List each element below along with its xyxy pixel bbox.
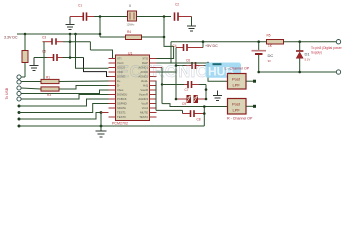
IC U1 PCM2702 body: [112, 52, 150, 126]
ground (bottom center): [96, 131, 107, 137]
resistor R4: [126, 30, 142, 40]
wire rail x75.5 down to chip pin3: [76, 34, 109, 68]
node rail x24: [24, 33, 27, 36]
node C3 right x70 y42: [69, 40, 72, 43]
svg-text:PCBCK: PCBCK: [117, 97, 127, 101]
wire box2 output: [246, 105, 254, 107]
wire pin R3 down right side: [161, 68, 163, 104]
capacitor C7: [162, 81, 206, 99]
svg-text:C2: C2: [175, 3, 179, 7]
svg-text:TEST0: TEST0: [117, 115, 126, 119]
wire C5 row to chip pin4: [84, 58, 109, 77]
blue watermark box HUB: [118, 63, 241, 82]
node C9 left: [175, 98, 178, 101]
terminal power -: [336, 70, 340, 74]
svg-text:SDATA: SDATA: [117, 106, 126, 110]
svg-text:ECTRONICS: ECTRONICS: [118, 63, 220, 81]
node box2 wire junction: [203, 105, 206, 108]
pin stubs left: [109, 59, 116, 118]
svg-text:D-: D-: [117, 84, 120, 88]
svg-text:LPF: LPF: [233, 108, 241, 113]
svg-text:XTI: XTI: [117, 57, 122, 61]
svg-text:+5V DC: +5V DC: [205, 44, 218, 48]
svg-text:SSPND: SSPND: [117, 102, 127, 106]
terminal power +: [336, 40, 340, 44]
node bottom rail battery: [257, 71, 260, 74]
svg-text:R4: R4: [127, 30, 131, 34]
wire pin R2 to box1 input: [157, 63, 228, 81]
node x44 y82: [43, 80, 46, 83]
wire dotrow4 to ground junction: [19, 125, 204, 127]
svg-text:C6: C6: [186, 59, 190, 63]
node pin12 red: [100, 111, 103, 114]
svg-text:VcomR: VcomR: [139, 93, 148, 97]
wire vertical x70 rail to C5: [69, 34, 71, 58]
svg-text:VoutR: VoutR: [140, 88, 148, 92]
svg-text:LPF: LPF: [233, 83, 241, 88]
capacitor C6: [176, 59, 208, 70]
svg-text:AGND3: AGND3: [138, 97, 148, 101]
svg-text:C7: C7: [185, 88, 189, 92]
wire junction down to ground: [100, 113, 102, 132]
terminal (USB pin 1): [17, 75, 21, 79]
svg-text:R - Channel OP: R - Channel OP: [227, 117, 253, 121]
wire C5 to chip pin1: [89, 42, 91, 50]
wire +5V rail: [171, 41, 337, 43]
svg-text:C9: C9: [182, 102, 186, 106]
red stub pin12 long: [101, 112, 109, 114]
wire terminal5 staircase to pin9: [21, 95, 108, 100]
node C5 right x70 y57: [69, 56, 72, 59]
zener diode D1: [296, 42, 310, 72]
svg-text:3.3V DC: 3.3V DC: [4, 36, 18, 40]
node rail battery: [257, 40, 260, 43]
terminal (USB pin 3): [17, 86, 21, 90]
svg-text:Post: Post: [232, 102, 241, 107]
ground (after C2): [187, 26, 196, 31]
svg-text:DGNDU: DGNDU: [117, 93, 127, 97]
svg-text:R5: R5: [267, 34, 271, 38]
wire terminal1 to R2: [21, 76, 25, 78]
svg-text:PCM2702: PCM2702: [112, 122, 128, 126]
node C8 right: [203, 112, 206, 115]
node ground junction: [100, 125, 103, 128]
svg-text:Vbus: Vbus: [117, 88, 124, 92]
wire dotrow1 staircase to pin10: [19, 99, 109, 106]
wire dotrow3 staircase to pin12: [19, 113, 101, 120]
ground (between LPF blocks): [213, 91, 222, 101]
wire C2 to ground: [191, 17, 193, 27]
node C6 left: [175, 64, 178, 67]
svg-text:HiQ: HiQ: [143, 84, 149, 88]
terminal (USB pin 5): [17, 97, 21, 101]
wire C1 to crystal: [94, 16, 127, 18]
wire box1 output: [246, 80, 254, 82]
wire vertical node100 to rail: [99, 17, 101, 38]
svg-text:3V: 3V: [268, 59, 272, 63]
ground (C5 left): [30, 58, 39, 71]
svg-text:Supply): Supply): [311, 51, 322, 55]
node rail x70: [69, 33, 72, 36]
wire R4 row: [100, 36, 164, 38]
node at x=100 y=16: [99, 15, 102, 18]
resistor R5: [267, 34, 284, 49]
svg-text:VccR: VccR: [141, 102, 148, 106]
node dotrow4: [18, 125, 21, 128]
svg-text:5.1V: 5.1V: [305, 58, 311, 62]
node dotrow1: [18, 105, 21, 108]
node C7 branch: [161, 83, 163, 85]
svg-text:To USB: To USB: [5, 87, 9, 99]
svg-text:R1: R1: [46, 75, 50, 79]
capacitor C4: [173, 42, 204, 72]
node C9 right: [205, 98, 208, 101]
svg-text:L - Channel OP: L - Channel OP: [225, 67, 250, 71]
capacitor C1: [70, 4, 94, 21]
svg-text:C3: C3: [42, 35, 46, 39]
svg-text:XTO: XTO: [142, 57, 149, 61]
pin stubs right: [150, 59, 163, 118]
node bottom rail D1: [298, 71, 301, 74]
svg-text:Post: Post: [232, 77, 241, 82]
wire 3.3V rail: [17, 33, 100, 35]
capacitor C8: [156, 81, 204, 126]
node box1 output square: [253, 80, 256, 83]
block Post LPF 2: [228, 99, 247, 115]
svg-text:C1: C1: [78, 4, 82, 8]
node at x=163 y=16: [163, 15, 166, 18]
terminal (USB pin 4): [17, 91, 21, 95]
battery DC: [252, 42, 274, 72]
node rail x75.5: [74, 33, 77, 36]
svg-text:DC: DC: [268, 53, 274, 58]
wire terminal4 staircase to pin8: [21, 90, 108, 94]
svg-text:TEST2: TEST2: [139, 115, 148, 119]
wire crystal to C2: [137, 16, 172, 18]
node rail D1: [298, 40, 301, 43]
node pinR2 wire: [207, 62, 210, 65]
svg-text:Vcc2: Vcc2: [142, 106, 149, 110]
terminal (USB pin 2): [17, 80, 21, 84]
svg-text:MUTE: MUTE: [140, 111, 148, 115]
capacitor C9 electrolytic pair: [157, 72, 207, 106]
svg-text:D1: D1: [305, 52, 311, 57]
wire terminal3 to R3: [21, 88, 41, 89]
node C7 right: [205, 88, 208, 91]
wire VBUS pin up to 5V rail: [157, 42, 172, 63]
capacitor C5: [34, 50, 84, 61]
wire to box2 input: [162, 104, 228, 107]
svg-text:To pin3 (Digital power: To pin3 (Digital power: [311, 46, 343, 50]
node dotrow3: [18, 118, 21, 121]
svg-text:TEST1: TEST1: [117, 111, 126, 115]
node dotrow2: [18, 111, 21, 114]
resistor R2 vertical: [22, 34, 28, 77]
wire C3 left down to row2: [43, 42, 45, 82]
svg-text:C8: C8: [197, 118, 201, 122]
node box2 output square: [253, 105, 256, 108]
capacitor C3: [42, 35, 90, 44]
wire terminal2 to R1: [21, 81, 41, 83]
node C6 right: [207, 64, 210, 67]
crystal X: [127, 4, 137, 27]
node rail x163: [163, 36, 166, 39]
pin names U1: [117, 57, 149, 120]
capacitor C2: [175, 3, 192, 21]
block Post LPF 1: [228, 74, 247, 90]
wire vertical node163 to rail: [163, 17, 165, 38]
node rail x100: [99, 33, 102, 36]
svg-text:12MHz: 12MHz: [127, 24, 136, 27]
wire dotrow2 staircase to pin11: [19, 104, 109, 113]
resistor R1: [41, 75, 109, 83]
wire bottom power rail: [259, 71, 337, 73]
ground (under C1 left): [66, 17, 75, 30]
node rail x203: [202, 40, 205, 43]
wire XTO route to crystal rail: [157, 37, 174, 59]
svg-text:U1: U1: [128, 52, 132, 56]
resistor R3: [41, 86, 109, 98]
